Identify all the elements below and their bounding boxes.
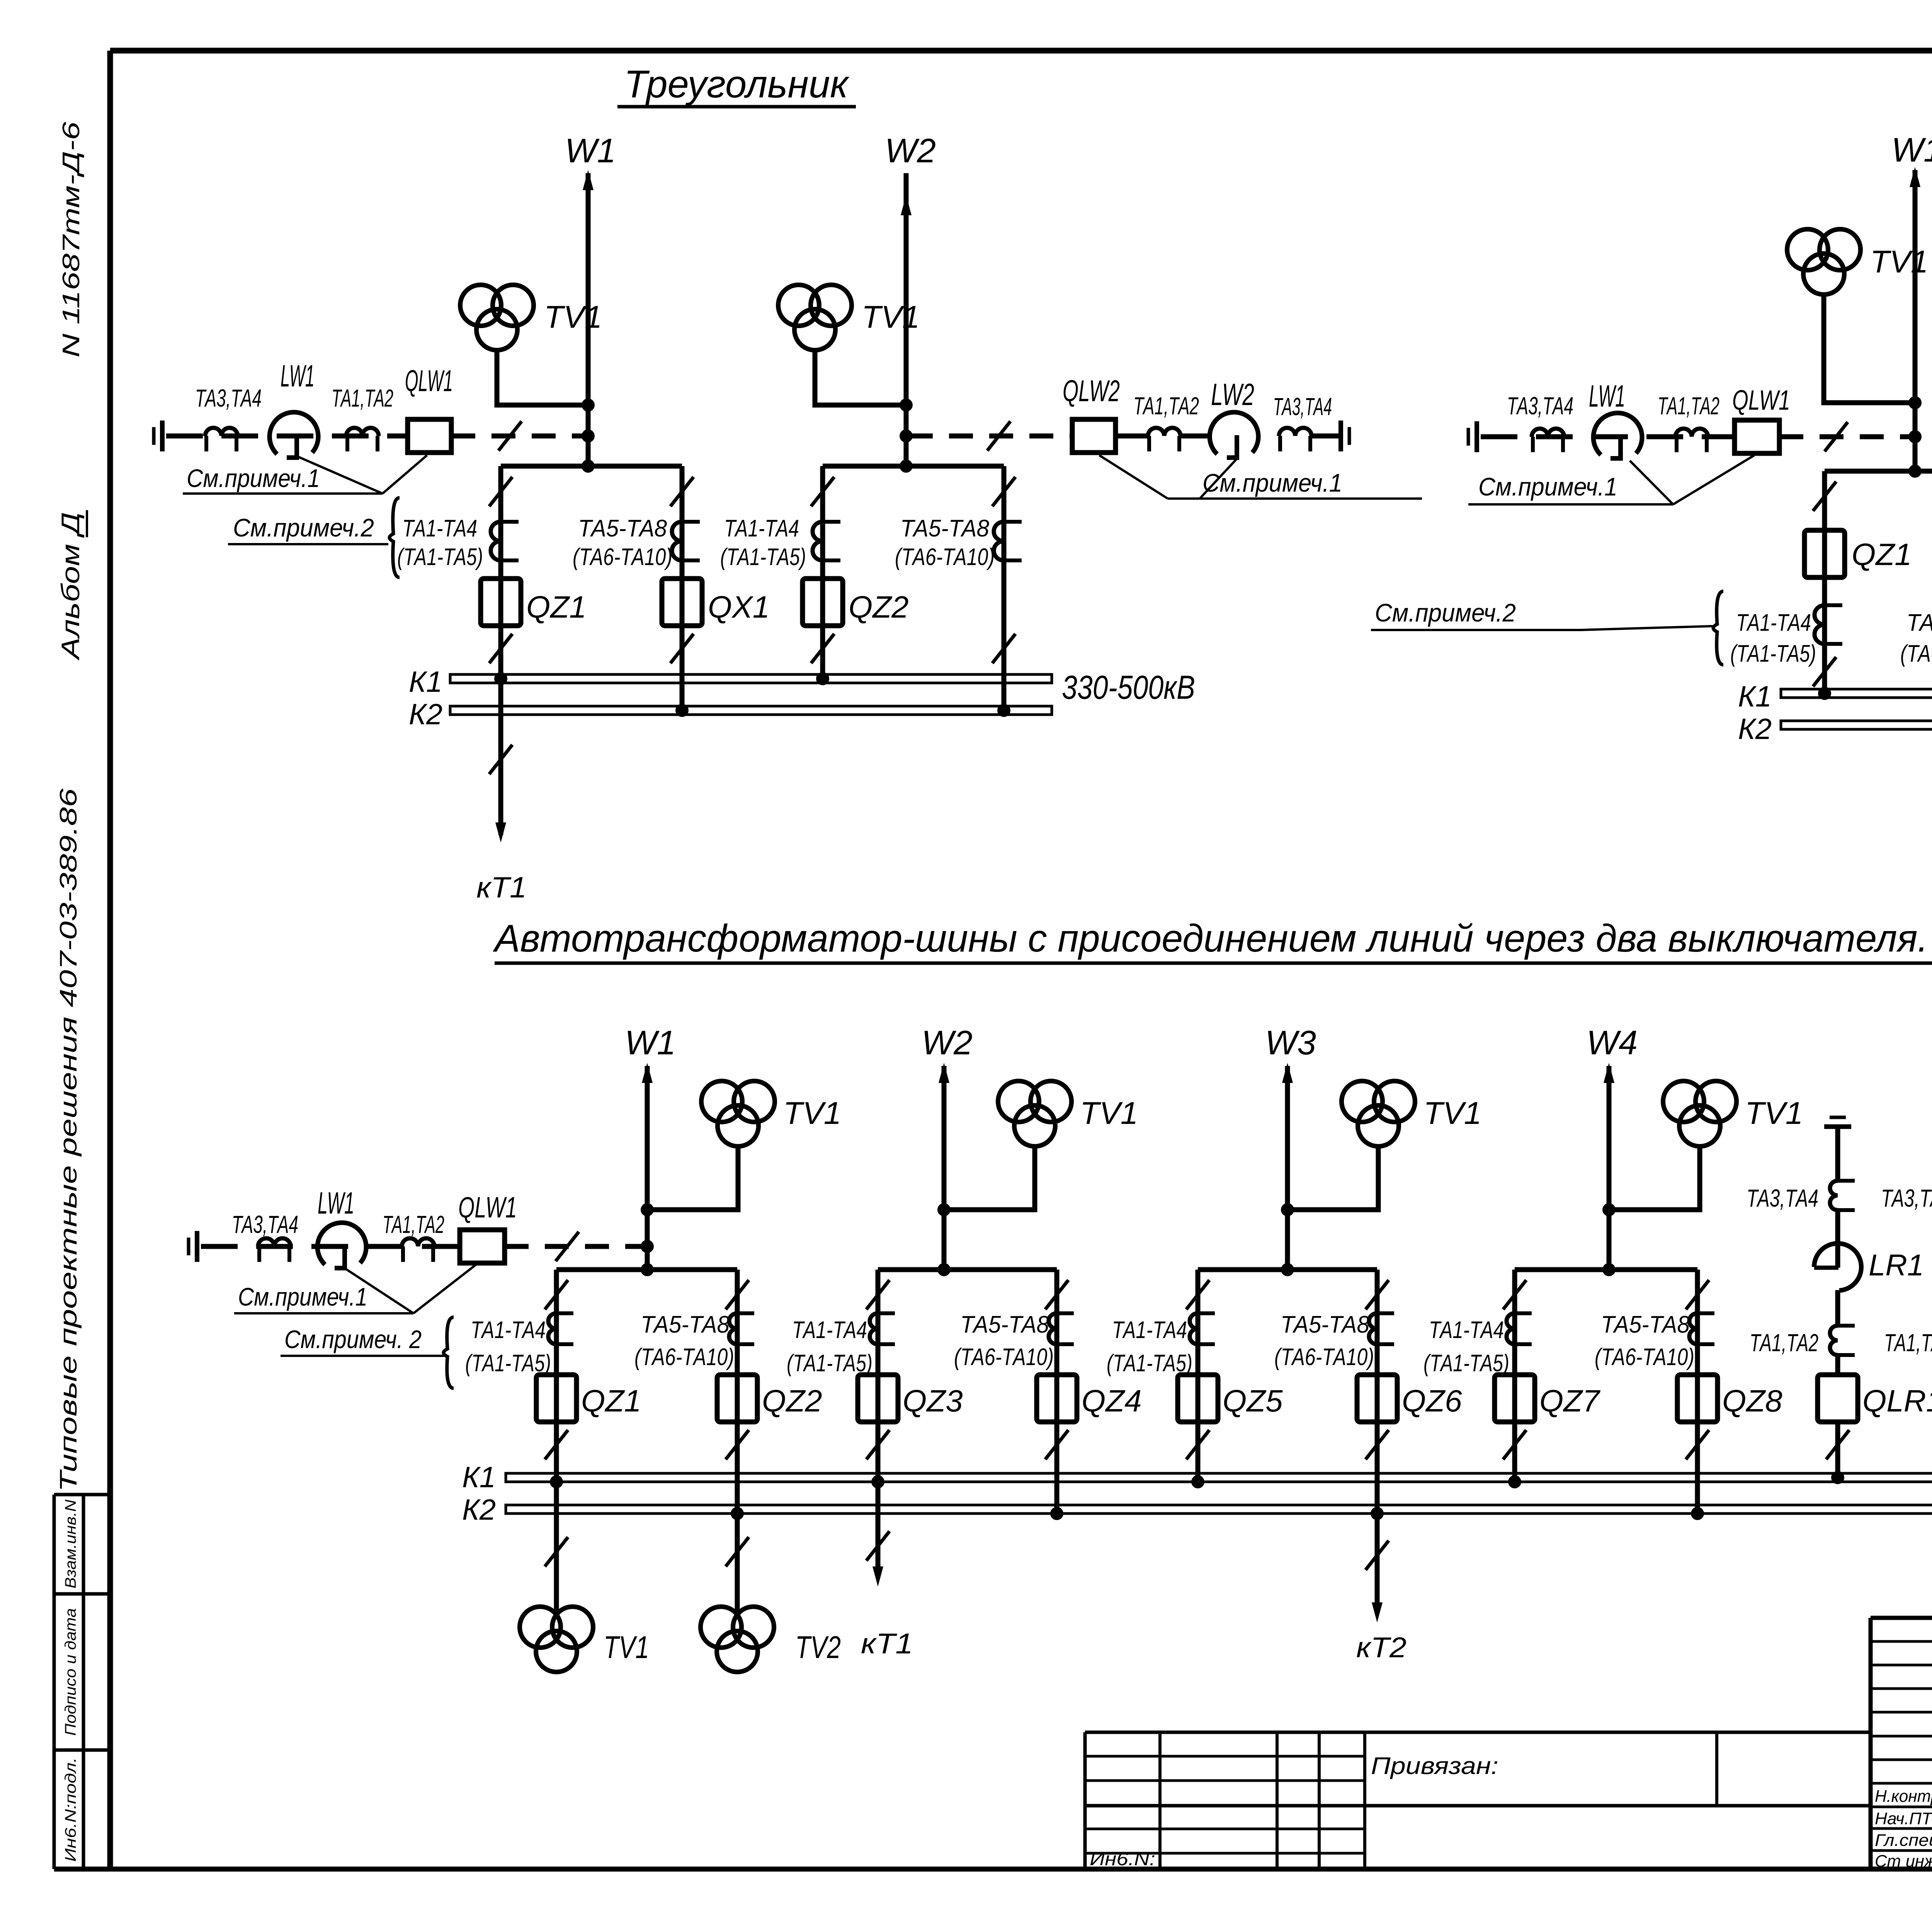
node W4 bridge C [1602, 1263, 1616, 1276]
bus K1 A [450, 674, 1052, 683]
brace TA group B [1713, 591, 1723, 665]
coupling terminal C-left [187, 1238, 190, 1255]
break mark feeder A-right [987, 421, 1010, 451]
break mark leg C6 top [1366, 1280, 1389, 1309]
wire kT1 leg C [876, 1482, 881, 1575]
break mark TV1 leg [545, 1537, 568, 1566]
svg-text:(ТА1-ТА5): (ТА1-ТА5) [720, 544, 806, 570]
CT leg C6 [1369, 1313, 1377, 1344]
line W4 C [1607, 1066, 1612, 1270]
CT TA3,TA4 C [258, 1238, 291, 1246]
svg-text:ТА3,ТА4: ТА3,ТА4 [195, 384, 262, 412]
line W2 [904, 173, 909, 466]
breaker QZ8 [1677, 1375, 1718, 1422]
breaker QLR1 [1818, 1375, 1858, 1422]
voltage transformer TV1 B-left [1787, 229, 1828, 270]
break mark leg A2 top [670, 477, 694, 506]
voltage transformer TV1 C4 [1663, 1081, 1704, 1122]
svg-text:См.примеч.2: См.примеч.2 [233, 513, 374, 542]
wire QLW1-W1 C [505, 1244, 645, 1249]
svg-text:См.примеч.1: См.примеч.1 [187, 464, 320, 492]
node QLR1-K1 [1831, 1471, 1844, 1484]
svg-text:См.примеч.1: См.примеч.1 [1478, 472, 1617, 501]
svg-text:LW2: LW2 [1211, 377, 1254, 412]
CT leg C1 [548, 1313, 556, 1344]
svg-text:ТА1,ТА2: ТА1,ТА2 [332, 384, 393, 412]
break mark leg A4 low [992, 634, 1015, 663]
CT TA1,TA2 feeder [346, 428, 379, 436]
ground LR1 [1830, 1116, 1846, 1119]
CT TA1,TA2 LR1 [1830, 1326, 1838, 1355]
break mark below QZ7 [1503, 1430, 1526, 1459]
break mark feeder A-left [498, 421, 522, 451]
wire bridge A2 top [823, 464, 1004, 469]
svg-text:QZ2: QZ2 [849, 590, 909, 624]
svg-text:кТ1: кТ1 [861, 1628, 913, 1660]
CT TA3,TA4 B [1532, 429, 1564, 437]
bus K2 C [506, 1505, 1932, 1514]
svg-text:(ТА6-ТА10): (ТА6-ТА10) [1595, 1344, 1694, 1371]
wire TA-LR1 [1835, 1210, 1840, 1268]
coupling terminal left [152, 427, 156, 445]
CT TA1-TA4 leg A1 [491, 522, 501, 560]
svg-text:ТА1-ТА4: ТА1-ТА4 [471, 1317, 546, 1343]
svg-text:ТА1,ТА2: ТА1,ТА2 [1133, 392, 1199, 420]
leader to QLW1 B [1673, 455, 1754, 504]
CT TA1-TA4 leg B1 [1815, 605, 1825, 644]
wire TA-LW2 [1180, 434, 1210, 439]
wire leg A4 [1002, 466, 1007, 710]
svg-text:ТА1,ТА2: ТА1,ТА2 [1750, 1329, 1818, 1357]
svg-text:LW1: LW1 [318, 1186, 354, 1220]
svg-text:QZ1: QZ1 [581, 1384, 641, 1418]
break mark below QLR1 [1826, 1430, 1849, 1459]
svg-text:QLR1: QLR1 [1862, 1384, 1932, 1418]
break mark below QX1 [670, 634, 694, 663]
svg-text:QZ1: QZ1 [526, 590, 587, 624]
wire TV1 to W1 B [1824, 295, 1915, 403]
svg-text:См.примеч. 2: См.примеч. 2 [284, 1325, 422, 1353]
wire leg C6 [1375, 1270, 1380, 1514]
break mark leg A1 top [489, 477, 512, 506]
svg-text:QZ8: QZ8 [1722, 1384, 1782, 1418]
leader to QLW1 C [413, 1265, 476, 1313]
svg-text:Альбом Д: Альбом Д [56, 512, 85, 661]
wire TV1 to W1 C [647, 1146, 738, 1210]
svg-text:ТА1-ТА4: ТА1-ТА4 [1112, 1317, 1187, 1343]
break mark below QZ6 [1366, 1430, 1389, 1459]
break mark TV2 leg [726, 1537, 749, 1566]
line trap LW1 B [1594, 413, 1642, 455]
wire bridge B1 top [1825, 469, 1932, 474]
break mark leg C3 top [866, 1280, 889, 1309]
CT TA5-TA8 leg A2 [672, 522, 682, 560]
svg-text:QLW1: QLW1 [405, 364, 453, 398]
wire TV1 leg C [554, 1482, 559, 1612]
svg-text:Гл.спец.: Гл.спец. [1875, 1831, 1932, 1850]
leader to QLW1 [383, 455, 427, 494]
svg-text:QLW2: QLW2 [1063, 374, 1120, 408]
svg-text:(ТА6-ТА10): (ТА6-ТА10) [1274, 1344, 1374, 1371]
break mark below QZ5 [1186, 1430, 1209, 1459]
voltage transformer TV1 C1 [701, 1081, 742, 1122]
svg-text:ТА3,ТА4: ТА3,ТА4 [1273, 393, 1332, 421]
wire feeder left [166, 434, 408, 439]
svg-text:TV1: TV1 [783, 1096, 841, 1131]
svg-text:QLW1: QLW1 [458, 1191, 517, 1224]
svg-text:W3: W3 [1265, 1023, 1316, 1062]
svg-text:(ТА6-ТА10): (ТА6-ТА10) [634, 1344, 734, 1371]
svg-text:ТА5-ТА8: ТА5-ТА8 [900, 515, 989, 542]
CT leg C5 [1190, 1313, 1198, 1344]
disconnector QLW2 [1072, 419, 1116, 453]
break mark leg C7 top [1503, 1280, 1526, 1309]
voltage transformer TV1 bottom [520, 1607, 561, 1648]
wire TA-QLR1 [1835, 1355, 1840, 1375]
svg-text:ТА1-ТА4: ТА1-ТА4 [402, 515, 477, 542]
voltage transformer TV1 C3 [1342, 1081, 1383, 1122]
node W1 bridge [582, 460, 595, 473]
wire QLW1 to W1 [451, 434, 585, 439]
wire kT1 leg [498, 683, 503, 835]
break mark leg C1 top [545, 1280, 568, 1309]
node TV1 tap W2 [900, 398, 913, 412]
wire feeder right W2 [909, 434, 1072, 439]
svg-text:TV1: TV1 [1080, 1096, 1138, 1131]
wire bridge C3 top [1198, 1267, 1377, 1272]
breaker QZ1 [481, 579, 521, 626]
svg-text:QLW1: QLW1 [1732, 385, 1790, 416]
svg-text:LW1: LW1 [281, 359, 315, 393]
CT leg C2 [729, 1313, 737, 1344]
node leg B1-K1 [1818, 687, 1831, 700]
break mark below QZ4 [1045, 1430, 1068, 1459]
node TV1 tap C3 [1281, 1203, 1294, 1216]
drawing frame border [110, 48, 1932, 54]
node leg C3 bus [871, 1475, 884, 1488]
break mark below QZ1 [489, 634, 512, 663]
wire bridge C1 top [556, 1267, 737, 1272]
node leg A1-K1 [494, 672, 507, 685]
leader to LW2 notch [1200, 459, 1236, 499]
svg-text:QZ6: QZ6 [1402, 1384, 1462, 1418]
node leg A2-K2 [675, 704, 689, 717]
line W3 C [1285, 1066, 1290, 1270]
line trap LW1 [270, 412, 318, 454]
breaker QZ3 [858, 1375, 898, 1422]
leader to LW1 C [345, 1268, 413, 1313]
node feeder W1 B [1908, 430, 1922, 443]
svg-text:N 11687тм-Д-6: N 11687тм-Д-6 [58, 121, 85, 358]
svg-text:QZ2: QZ2 [762, 1384, 822, 1418]
wire leg A1 [498, 466, 503, 683]
breaker QZ6 [1357, 1375, 1397, 1422]
svg-text:Взам.инв.N: Взам.инв.N [62, 1500, 79, 1588]
wire leg A3 [820, 466, 825, 679]
svg-text:QZ5: QZ5 [1223, 1384, 1283, 1418]
node TV1 tap C4 [1602, 1203, 1616, 1216]
svg-text:TV1: TV1 [1745, 1096, 1803, 1131]
CT TA1-TA4 leg A3 [813, 522, 823, 560]
node feeder W2 [900, 429, 913, 443]
node leg C1 bus [550, 1475, 563, 1488]
svg-text:(ТА1-ТА5): (ТА1-ТА5) [397, 544, 483, 570]
svg-text:(ТА6-ТА10): (ТА6-ТА10) [954, 1344, 1054, 1371]
svg-text:К2: К2 [1738, 713, 1772, 746]
svg-text:ТА1,ТА2: ТА1,ТА2 [1884, 1329, 1932, 1357]
svg-text:W2: W2 [922, 1023, 973, 1062]
wire kT2 leg C [1375, 1514, 1380, 1612]
leader to LW1 B [1630, 461, 1673, 504]
wire TV1 to W2 C [944, 1146, 1035, 1210]
svg-text:TV1: TV1 [1870, 244, 1928, 279]
node leg C4 bus [1050, 1507, 1063, 1520]
svg-text:ТА1-ТА4: ТА1-ТА4 [1429, 1317, 1504, 1343]
wire bridge A1 top [501, 464, 682, 469]
breaker QZ2 [717, 1375, 757, 1422]
reactor LR1 [1814, 1243, 1861, 1290]
break mark below QZ8 [1686, 1430, 1709, 1459]
wire leg C7 [1512, 1270, 1517, 1482]
line trap LW2 [1210, 412, 1259, 454]
svg-text:(ТА6-ТА10): (ТА6-ТА10) [1900, 640, 1932, 667]
breaker QZ7 [1495, 1375, 1535, 1422]
CT TA1,TA2 B [1675, 429, 1708, 437]
svg-text:ТА5-ТА8: ТА5-ТА8 [1281, 1311, 1369, 1338]
svg-text:QZ1: QZ1 [1852, 537, 1912, 572]
break mark below QZ2 [726, 1430, 749, 1459]
node leg C6 bus [1371, 1507, 1384, 1520]
break mark leg C4 top [1045, 1280, 1068, 1309]
svg-text:TV1: TV1 [862, 300, 920, 335]
title block stamp [1871, 1616, 1932, 1620]
wire leg C3 [876, 1270, 881, 1482]
brace TA group C [444, 1317, 454, 1388]
svg-text:QZ4: QZ4 [1082, 1384, 1142, 1418]
line trap LW1 C [318, 1223, 366, 1265]
voltage transformer TV1 (W2) [778, 285, 819, 326]
CT leg C4 [1049, 1313, 1057, 1344]
line W1 [586, 173, 591, 466]
breaker QZ1 [536, 1375, 577, 1422]
break mark leg A3 top [811, 477, 834, 506]
svg-text:ТА3,ТА4: ТА3,ТА4 [1507, 392, 1573, 420]
svg-text:TV1: TV1 [604, 1630, 649, 1665]
break mark above K1 B1 [1813, 657, 1836, 686]
svg-text:(ТА6-ТА10): (ТА6-ТА10) [573, 544, 672, 570]
brace TA group A [389, 498, 400, 577]
wire leg C2 [735, 1270, 740, 1514]
svg-text:Привязан:: Привязан: [1371, 1753, 1498, 1779]
svg-text:См.примеч.2: См.примеч.2 [1375, 598, 1516, 627]
node leg C7 bus [1508, 1475, 1521, 1488]
wire leg A2 [680, 466, 685, 710]
svg-text:ТА1-ТА4: ТА1-ТА4 [1736, 609, 1811, 636]
svg-text:ТА5-ТА8: ТА5-ТА8 [641, 1311, 730, 1338]
bus K2 A [450, 706, 1052, 715]
node W1 bridge C [641, 1263, 654, 1276]
bus K1 C [506, 1473, 1932, 1482]
svg-text:ТА3,ТА4: ТА3,ТА4 [232, 1210, 298, 1238]
svg-text:QX1: QX1 [708, 590, 770, 624]
svg-text:W4: W4 [1587, 1023, 1638, 1062]
svg-text:TV1: TV1 [544, 300, 602, 335]
svg-text:ТА5-ТА8: ТА5-ТА8 [1601, 1311, 1690, 1338]
node TV1 tap B1 [1908, 396, 1922, 409]
CT leg C7 [1507, 1313, 1515, 1344]
voltage transformer TV1 (W1) [460, 285, 501, 326]
leader to LW1 [298, 457, 383, 494]
voltage transformer TV1 C2 [998, 1081, 1039, 1122]
svg-text:(ТА1-ТА5): (ТА1-ТА5) [1730, 640, 1816, 667]
svg-text:W1: W1 [565, 131, 616, 170]
svg-text:Типовые проектные решения 4: Типовые проектные решения 407-03-389.86 [55, 788, 82, 1492]
CT TA3,TA4 feeder right [1279, 428, 1311, 436]
break mark kT2 C [1366, 1541, 1389, 1570]
node TV1 tap [582, 398, 595, 412]
svg-text:ТА3,ТА4: ТА3,ТА4 [1881, 1184, 1932, 1212]
wire leg C5 [1196, 1270, 1201, 1482]
CT TA3,TA4 LR1 [1830, 1181, 1838, 1210]
breaker QZ4 [1037, 1375, 1077, 1422]
node W2 bridge [900, 460, 913, 473]
break mark leg C5 top [1186, 1280, 1209, 1309]
wire feeder C-left [201, 1244, 460, 1249]
break mark below QZ2 [811, 634, 834, 663]
breaker QZ5 [1178, 1375, 1218, 1422]
wire LR1-TA [1835, 1290, 1840, 1326]
svg-text:К1: К1 [1738, 680, 1772, 713]
wire leg C8 [1695, 1270, 1700, 1514]
svg-text:QZ3: QZ3 [903, 1384, 963, 1418]
node feeder W1 C [641, 1240, 654, 1253]
breaker QX1 [662, 579, 702, 626]
svg-text:Н.контр.: Н.контр. [1875, 1787, 1932, 1806]
disconnector QLW1 C [460, 1230, 505, 1263]
svg-text:См.примеч.1: См.примеч.1 [238, 1282, 367, 1311]
svg-text:ТА3,ТА4: ТА3,ТА4 [1747, 1184, 1818, 1212]
wire TV1 to W4 C [1609, 1146, 1700, 1210]
break mark feeder B-left [1825, 422, 1848, 451]
wire to right end [1311, 434, 1340, 439]
wire feeder B-left [1481, 434, 1735, 439]
svg-text:Ин6.N:: Ин6.N: [1090, 1849, 1155, 1869]
bus K2 B [1781, 721, 1932, 729]
wire leg B1 [1822, 471, 1827, 693]
svg-text:ТА1,ТА2: ТА1,ТА2 [1658, 392, 1719, 420]
break mark leg C8 top [1686, 1280, 1709, 1309]
svg-text:К1: К1 [409, 666, 442, 698]
stamp privyazan strip [1365, 1731, 1871, 1734]
break mark leg B1 [1813, 482, 1836, 511]
wire TV1 to W1 [497, 350, 588, 405]
CT TA3,TA4 feeder [205, 428, 238, 436]
CT TA1,TA2 feeder right [1148, 428, 1180, 436]
CT TA5-TA8 leg A4 [994, 522, 1004, 560]
bus K1 B [1781, 689, 1932, 698]
break mark below QZ1 [545, 1430, 568, 1459]
svg-text:кТ1: кТ1 [476, 871, 527, 904]
svg-text:(ТА6-ТА10): (ТА6-ТА10) [895, 544, 995, 570]
node TV1 tap C2 [937, 1203, 951, 1216]
breaker QZ1 B [1804, 530, 1845, 577]
break mark leg C2 top [726, 1280, 749, 1309]
svg-text:кТ2: кТ2 [1356, 1631, 1406, 1663]
svg-text:К2: К2 [462, 1493, 496, 1526]
break mark feeder C [556, 1232, 579, 1261]
node W1 bridge B [1908, 465, 1922, 478]
svg-text:TV1: TV1 [1423, 1096, 1481, 1131]
break mark leg A4 top [992, 477, 1015, 506]
svg-text:ТА1-ТА4: ТА1-ТА4 [724, 515, 799, 542]
svg-text:W1: W1 [625, 1023, 676, 1062]
leader to QLW2 [1099, 455, 1168, 499]
CT leg C3 [870, 1313, 878, 1344]
node TV1 tap C1 [641, 1203, 654, 1216]
svg-text:ТА5-ТА8: ТА5-ТА8 [960, 1311, 1049, 1338]
break mark kT1 C [866, 1531, 889, 1561]
wire leg C1 [554, 1270, 559, 1482]
svg-text:LW1: LW1 [1589, 379, 1625, 413]
svg-text:Треугольник: Треугольник [624, 63, 850, 106]
margin table frame [53, 1495, 56, 1869]
svg-text:Ин6.N:подл.: Ин6.N:подл. [62, 1757, 79, 1862]
svg-text:ТА5-ТА8: ТА5-ТА8 [578, 515, 667, 542]
svg-text:Ст инж.: Ст инж. [1875, 1852, 1932, 1871]
svg-text:LR1: LR1 [1869, 1248, 1924, 1282]
svg-text:TV2: TV2 [795, 1630, 841, 1665]
line W1 B [1913, 170, 1918, 471]
wire leg C4 [1054, 1270, 1060, 1514]
line W2 C [942, 1066, 947, 1270]
svg-text:QZ7: QZ7 [1539, 1384, 1600, 1418]
disconnector QLW1 [408, 419, 451, 453]
svg-text:ТА1-ТА4: ТА1-ТА4 [792, 1317, 867, 1343]
wire QLW1-W1 B [1779, 434, 1912, 439]
CT leg C8 [1689, 1313, 1697, 1344]
svg-text:Автотрансформатор-шины с присо: Автотрансформатор-шины с присоединением … [493, 917, 1928, 960]
svg-text:330-500кВ: 330-500кВ [1062, 669, 1195, 706]
node W3 bridge C [1281, 1263, 1294, 1276]
node leg C5 bus [1191, 1475, 1204, 1488]
svg-text:W1: W1 [1891, 131, 1932, 169]
node leg A4-K2 [997, 704, 1010, 717]
svg-text:ТА5-ТА8: ТА5-ТА8 [1906, 609, 1932, 636]
node leg C8 bus [1691, 1507, 1704, 1520]
wire ground-TA LR1 [1835, 1127, 1840, 1181]
wire QLR1-bus [1835, 1422, 1840, 1482]
node leg A3-K1 [816, 672, 829, 685]
wire TV1 to W2 [815, 350, 906, 405]
svg-text:Подписо и дата: Подписо и дата [62, 1608, 79, 1736]
svg-text:Нач.ПТП: Нач.ПТП [1875, 1809, 1932, 1828]
wire TV2 leg C [735, 1514, 740, 1612]
wire bridge C4 top [1515, 1267, 1697, 1272]
coupling terminal B-left [1467, 428, 1470, 446]
node W2 bridge C [937, 1263, 951, 1276]
svg-text:W2: W2 [885, 131, 936, 170]
wire bridge C2 top [878, 1267, 1057, 1272]
break mark below QZ3 [866, 1430, 889, 1459]
svg-text:К2: К2 [409, 698, 442, 731]
voltage transformer TV2 bottom [701, 1607, 742, 1648]
svg-text:К1: К1 [462, 1461, 496, 1494]
disconnector QLW1 B [1735, 420, 1779, 453]
node leg C2 bus [731, 1507, 744, 1520]
wire TV1 to W3 C [1287, 1146, 1378, 1210]
svg-text:ТА1,ТА2: ТА1,ТА2 [383, 1210, 444, 1238]
node feeder W1 [582, 429, 595, 443]
